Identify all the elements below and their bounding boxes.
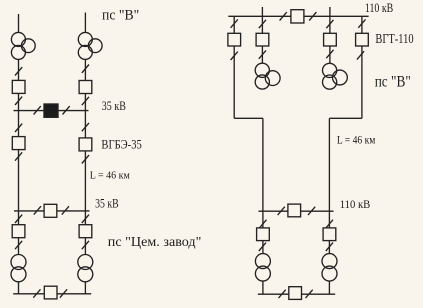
svg-text:пс "В": пс "В" (375, 74, 411, 91)
disconnector slash colB below bus1 (82, 123, 89, 131)
disconnector slash on bus3 left (33, 289, 40, 297)
breaker Q15 (257, 228, 270, 241)
breaker Q13 (356, 33, 369, 46)
breaker Q11 (256, 33, 269, 46)
transformer T3 (two-winding) (11, 255, 26, 282)
svg-text:пс "Цем. завод": пс "Цем. завод" (108, 235, 202, 250)
stub above bus feeder F2 (261, 7, 263, 16)
breaker Q16 (323, 228, 336, 241)
disconnector slash on bus5 right (308, 207, 315, 215)
transformer T1 (three-winding) (11, 32, 35, 59)
disconnector slash colB below bus2 (82, 215, 89, 223)
wire feeder F1 (line bay) (233, 16, 235, 118)
disconnector slash on bus4 right (309, 12, 316, 20)
wire feeder F2 (transformer bay) (261, 16, 263, 63)
wire colB top feed (84, 13, 86, 33)
wire colB T4 to bus3 (84, 282, 86, 294)
wire colB bus1 to bus2 (84, 111, 86, 211)
bus LV (receiving end) (258, 293, 335, 295)
disconnector slash on bus6 left (279, 290, 286, 298)
disconnector slash on bus6 right (306, 290, 313, 298)
disconnector slash colD above T8 (326, 243, 333, 251)
disconnector slash colB below Q4 (82, 155, 89, 163)
disconnector slash colA below Q3 (15, 152, 22, 160)
disconnector slash colA above T3 (15, 241, 22, 249)
disconnector slash colA above bus1 (15, 97, 22, 105)
wire colB bus2 to T4 (84, 211, 86, 255)
disconnector slash colC above T7 (259, 243, 266, 251)
line L1 46 km (262, 118, 264, 211)
disconnector slash colD below bus5 (326, 220, 333, 228)
disconnector slash F2 below bus (259, 20, 266, 28)
svg-text:L = 46 км: L = 46 км (337, 133, 376, 147)
bus LV cement plant (13, 293, 91, 295)
breaker Q6 (12, 225, 25, 238)
svg-text:110 кВ: 110 кВ (340, 199, 371, 211)
disconnector slash colB above T4 (82, 241, 89, 249)
bus 110 kV (receiving end) (259, 210, 334, 212)
disconnector slash colA below bus1 (15, 124, 22, 132)
disconnector slash F3 below Q12 (326, 50, 333, 58)
section breaker Q17 (289, 287, 302, 300)
transformer T7 (two-winding) (255, 254, 270, 282)
disconnector slash colC below bus5 (259, 220, 266, 228)
line breaker Q5 (44, 204, 57, 217)
jog wire F4 to line L2 (329, 117, 362, 119)
bus 35 kV (lower, line side) (14, 210, 90, 212)
stub above bus feeder F3 (329, 7, 331, 16)
disconnector slash on bus2 right (62, 206, 69, 214)
svg-text:35 кВ: 35 кВ (102, 98, 126, 113)
svg-text:пс "В": пс "В" (102, 8, 139, 24)
transformer T2 (three-winding) (78, 32, 102, 59)
wire colC T7 to bus6 (262, 281, 264, 294)
section breaker QB1 (closed, filled) (44, 104, 58, 117)
wire colA bus2 to T3 (18, 211, 20, 255)
disconnector slash on bus1 right (63, 106, 70, 114)
disconnector slash F3 below bus (326, 20, 333, 28)
section breaker Q9 (291, 10, 304, 23)
svg-text:110 кВ: 110 кВ (365, 1, 393, 15)
wire colB T2 to breaker (84, 59, 86, 80)
svg-text:ВГТ-110: ВГТ-110 (375, 31, 413, 46)
disconnector slash F4 below bus (358, 19, 365, 27)
disconnector slash colA upper (15, 67, 22, 75)
svg-text:ВГБЭ-35: ВГБЭ-35 (101, 136, 141, 151)
wire colA top feed (18, 14, 20, 33)
wire colA T3 to bus3 (18, 282, 20, 294)
disconnector slash on bus4 left (280, 12, 287, 20)
disconnector slash on bus2 left (34, 206, 41, 214)
disconnector slash colB above bus1 (82, 97, 89, 105)
transformer T6 (three-winding) (323, 63, 348, 89)
wire colD T8 to bus6 (328, 281, 330, 294)
breaker Q7 (79, 225, 92, 238)
breaker Q10 (228, 33, 241, 46)
breaker Q3 (12, 137, 25, 150)
breaker Q4 ВГБЭ-35 (79, 138, 92, 151)
bus 35 kV (upper) (14, 110, 89, 112)
breaker Q12 (324, 33, 337, 46)
wire colA breaker to bus (18, 93, 20, 110)
disconnector slash colA below bus2 (15, 215, 22, 223)
wire colD bus5 to T8 (328, 211, 330, 253)
wire colB breaker to bus (84, 94, 86, 111)
disconnector slash on bus1 left (34, 106, 41, 114)
disconnector slash F4 below Q13 (357, 51, 364, 59)
disconnector slash F2 below Q11 (259, 50, 266, 58)
wire colC bus5 to T7 (262, 211, 264, 253)
jog wire F1 to line L1 (234, 117, 263, 119)
disconnector slash F1 below Q10 (231, 52, 238, 60)
svg-text:L = 46 км: L = 46 км (90, 170, 130, 182)
wire colA T1 to breaker (18, 59, 20, 80)
transformer T5 (three-winding) (255, 63, 280, 89)
wire feeder F4 (line bay) ВГТ-110 (361, 16, 363, 118)
section breaker Q14 (288, 204, 301, 217)
svg-text:35 кВ: 35 кВ (95, 195, 119, 210)
breaker Q1 (12, 80, 25, 93)
breaker Q2 (79, 81, 92, 94)
section breaker Q8 (44, 286, 57, 299)
disconnector slash F1 below bus (231, 19, 238, 27)
bus 110 kV (top) (228, 15, 368, 17)
transformer T8 (two-winding) (322, 254, 337, 282)
disconnector slash colB upper (82, 65, 89, 73)
wire colA bus1 to bus2 (18, 111, 20, 211)
wire feeder F3 (transformer bay) (329, 16, 331, 63)
line L2 46 km (328, 118, 330, 211)
transformer T4 (two-winding) (78, 255, 93, 282)
disconnector slash on bus3 right (60, 289, 67, 297)
disconnector slash on bus5 left (278, 207, 285, 215)
